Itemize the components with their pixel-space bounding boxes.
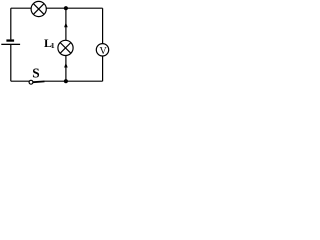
svg-text:S: S	[32, 67, 40, 82]
svg-text:1: 1	[51, 41, 55, 50]
svg-text:V: V	[100, 46, 108, 57]
